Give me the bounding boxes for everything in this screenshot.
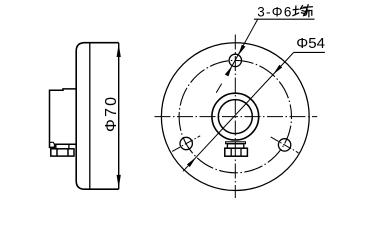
phi54 arrowhead lower (at bolt circle, pointing inward) — [187, 157, 196, 167]
radial centerline right hole — [271, 137, 299, 153]
phi54 underline — [294, 51, 325, 53]
terminal nut (front view) — [225, 148, 248, 156]
hub outer circle — [212, 93, 259, 140]
bolt hole top — [229, 54, 241, 66]
plate inner face line — [89, 43, 91, 189]
phi6 leader line upper segment — [235, 19, 258, 60]
phi6 arrowhead upper (tip at hole edge) — [238, 45, 245, 56]
outer circle phi70 — [161, 43, 309, 191]
hanzi bu (&#24067;) hand-drawn — [304, 5, 313, 17]
terminal top strip (front view) — [226, 142, 246, 144]
bolt hole lower-left — [180, 137, 192, 149]
svg-text:Φ54: Φ54 — [296, 35, 325, 52]
plate outline (disk side view with rounded left corners) — [76, 43, 119, 190]
arrowhead top (phi70) — [117, 43, 121, 57]
phi6 leader line lower tail — [216, 60, 235, 92]
phi54 dimension line at 45 deg through center — [183, 53, 294, 172]
arrowhead bottom (phi70) — [117, 175, 121, 189]
terminal nut (side view) — [51, 149, 74, 156]
mounting body (attachment) outline — [50, 89, 77, 147]
phi54 arrowhead upper (at bolt circle, pointing inward) — [273, 65, 282, 75]
vertical centerline — [234, 35, 236, 199]
terminal neck (front view) — [227, 144, 243, 149]
hub inner circle — [218, 100, 252, 134]
terminal neck (side view) — [56, 144, 69, 149]
svg-text:Φ70: Φ70 — [103, 95, 120, 132]
dimension line phi70 (right edge of plate) — [118, 43, 120, 190]
svg-text:3-Φ6: 3-Φ6 — [257, 4, 292, 19]
bolt hole right — [278, 139, 290, 151]
bolt circle phi54 (dash-dot) — [179, 60, 291, 172]
horizontal centerline — [155, 116, 318, 118]
phi6 underline — [254, 18, 315, 20]
hanzi jun (&#22343;) hand-drawn — [293, 5, 307, 15]
radial centerline lower-left hole — [172, 136, 200, 152]
phi6 arrowhead lower (tip at hole edge) — [225, 66, 232, 77]
